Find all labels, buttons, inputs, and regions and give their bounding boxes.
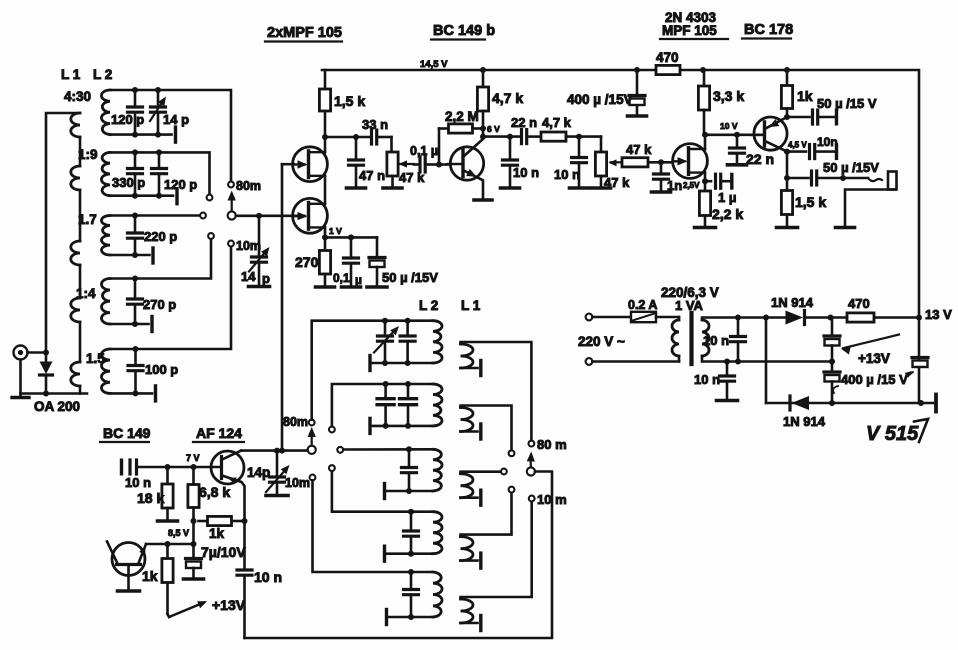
label L2 — [93, 67, 112, 82]
label 220/6,3V — [661, 285, 719, 313]
svg-text:14: 14 — [241, 269, 256, 284]
svg-text:6,8 k: 6,8 k — [199, 484, 230, 500]
svg-text:10n: 10n — [817, 135, 838, 149]
connector 220V top — [586, 314, 631, 321]
wire T1 out node — [483, 134, 521, 140]
svg-text:1,5 k: 1,5 k — [334, 93, 365, 109]
svg-text:L 1: L 1 — [461, 298, 481, 313]
svg-text:1:4: 1:4 — [76, 286, 96, 301]
connector 220V bottom — [586, 358, 679, 365]
svg-text:10 n: 10 n — [554, 167, 580, 182]
svg-text:MPF 105: MPF 105 — [662, 23, 717, 38]
inductor L1j (row5) — [461, 599, 474, 623]
label BC 178 — [742, 22, 793, 39]
wiper arrow 47k (mixer) — [609, 159, 623, 166]
svg-text:L 2: L 2 — [419, 298, 438, 313]
capacitor 47n — [347, 137, 386, 188]
capacitor 10n (osc out) — [237, 521, 282, 638]
capacitor 22n (coupling) — [511, 115, 541, 144]
capacitor elco +13V — [824, 318, 840, 365]
wire L2d bottom — [110, 317, 152, 332]
wire L2b bottom — [110, 189, 177, 204]
svg-text:L 1: L 1 — [61, 67, 81, 82]
inductor L2f (vfo row1) — [433, 321, 442, 363]
wire L2a bottom — [110, 127, 176, 142]
svg-text:6 V: 6 V — [487, 124, 500, 134]
inductor L2c (1.7) — [78, 212, 110, 255]
resistor 1,5k — [319, 70, 365, 111]
svg-text:p: p — [262, 271, 270, 286]
capacitor 1n — [652, 162, 683, 193]
svg-text:330 p: 330 p — [112, 175, 145, 190]
svg-text:2,5V: 2,5V — [683, 181, 700, 190]
wire L1j top to 10m — [461, 501, 532, 599]
switch pole (vfo L2) — [308, 427, 316, 454]
svg-text:7 V: 7 V — [186, 453, 200, 463]
contact L2c — [200, 213, 206, 219]
svg-text:L 2: L 2 — [93, 67, 112, 82]
capacitor 220p (L2c) — [128, 213, 178, 259]
capacitor 120p (L2b) — [152, 149, 198, 198]
resistor 18k — [137, 467, 178, 521]
svg-text:47 k: 47 k — [604, 175, 630, 190]
svg-text:1k: 1k — [142, 568, 158, 584]
antenna connector — [14, 346, 47, 360]
capacitor 33n — [362, 117, 392, 144]
svg-text:270: 270 — [295, 254, 319, 270]
switch pole arrow (input) — [228, 191, 236, 220]
svg-text:2,2 k: 2,2 k — [712, 206, 743, 222]
wire L1i bottom — [461, 553, 481, 568]
wire T3 collector — [222, 451, 241, 460]
wire osc node — [191, 521, 197, 557]
transistor T1 BC149b — [448, 147, 484, 180]
capacitor 10n (a) — [501, 137, 540, 188]
capacitor 10n (osc in) — [122, 460, 197, 490]
svg-text:0.2 A: 0.2 A — [628, 298, 657, 312]
capacitor elco 400u/15V — [824, 362, 908, 407]
svg-text:4,7 k: 4,7 k — [542, 115, 572, 130]
capacitor 14p variable (vfo) — [247, 451, 290, 496]
svg-text:220 V ~: 220 V ~ — [578, 334, 625, 349]
wire L2b top to contact — [110, 152, 210, 194]
contact L1g — [509, 450, 515, 456]
wire Q2 source — [324, 227, 327, 237]
label BC 149 — [100, 425, 151, 442]
phone jack — [843, 172, 897, 190]
arrow +13V (osc) — [168, 597, 246, 617]
capacitor 0,1u — [410, 144, 448, 172]
wire L2c top to contact — [110, 214, 200, 217]
svg-text:10m: 10m — [285, 476, 310, 490]
svg-text:10 n: 10 n — [125, 475, 151, 490]
wire L1g top — [461, 406, 512, 451]
capacitor 10n (b) — [554, 137, 589, 188]
svg-text:1k: 1k — [209, 526, 225, 541]
wire L2g bottom — [370, 418, 433, 433]
svg-text:1 µ: 1 µ — [718, 190, 736, 205]
svg-text:BC 149: BC 149 — [103, 425, 151, 441]
label L1 (vfo) — [461, 298, 481, 313]
svg-text:1k: 1k — [797, 88, 813, 104]
wire L2e top to 10m contact — [110, 246, 231, 349]
svg-text:+13V: +13V — [858, 351, 890, 366]
potentiometer 47k (mixer) — [592, 137, 631, 190]
capacitor 120p (L2a) — [111, 87, 144, 138]
resistor 1,5k (out) — [777, 178, 827, 228]
svg-text:1 V: 1 V — [329, 226, 342, 236]
fuse 0.2A — [628, 298, 679, 322]
transistor Q3 2N4303 — [673, 144, 708, 179]
wire L2g top — [329, 384, 433, 432]
svg-text:10 n: 10 n — [694, 372, 720, 387]
wire pole return — [245, 472, 553, 639]
resistor 1k (osc) — [142, 544, 173, 614]
svg-text:1,5 k: 1,5 k — [795, 194, 826, 210]
capacitor 400u/15V (rail) — [567, 70, 647, 116]
svg-text:120 p: 120 p — [164, 177, 197, 192]
capacitor 10n (psu b) — [694, 359, 738, 401]
svg-text:47 k: 47 k — [626, 142, 652, 157]
svg-text:14,5 V: 14,5 V — [420, 59, 448, 70]
arrow +13V — [841, 335, 899, 367]
diode 1N914 (bottom) — [783, 396, 826, 429]
wire L2a top to 80m contact — [110, 90, 231, 182]
wire T1 collector — [464, 134, 486, 156]
wire ground bus antenna — [21, 360, 88, 394]
inductor L2i (vfo row4) — [433, 512, 442, 554]
contact 10m (input) — [228, 239, 261, 253]
switch pole (vfo L1) — [527, 452, 535, 476]
inductor L2b (1:9) — [78, 147, 110, 196]
transformer primary — [672, 317, 679, 362]
resistor 47k (series) — [622, 142, 672, 167]
capacitor 50u/15V (bypass) — [367, 237, 438, 287]
resistor 1k (fb) — [168, 516, 245, 541]
label AF 124 — [193, 425, 244, 442]
svg-text:OA 200: OA 200 — [34, 399, 80, 414]
svg-text:400 µ /15 V: 400 µ /15 V — [841, 372, 908, 387]
svg-text:8,5 V: 8,5 V — [168, 528, 189, 538]
contact 10m (vfo L1) — [529, 492, 567, 507]
svg-text:470: 470 — [848, 296, 870, 311]
wire L2f bottom — [370, 356, 433, 371]
svg-text:µ: µ — [355, 273, 362, 287]
wire jack return — [836, 190, 896, 228]
inductor L2a (4:30) — [64, 89, 110, 135]
capacitor b (vfo row2) — [400, 381, 417, 429]
resistor 270 — [295, 237, 335, 287]
contact 80m (vfo L2) — [283, 415, 315, 429]
capacitor 10n (psu a) — [703, 315, 746, 365]
contact 80m (vfo L1) — [529, 437, 567, 452]
svg-text:V 515: V 515 — [866, 423, 919, 445]
resistor 4,7k (series) — [541, 115, 601, 141]
svg-text:50 µ /15 V: 50 µ /15 V — [817, 96, 877, 111]
capacitor 50u/15V (emitter) — [787, 96, 877, 124]
resistor 470 (rail) — [656, 50, 680, 75]
inductor L2d (1:4) — [76, 279, 110, 325]
inductor L1f (row1) — [461, 344, 474, 368]
capacitor variable (vfo row1) — [374, 318, 399, 366]
wire T1 emitter — [464, 169, 492, 200]
svg-text:50 µ /15V: 50 µ /15V — [382, 270, 438, 285]
wire L2e bottom — [110, 386, 156, 401]
capacitor 1u — [705, 174, 736, 205]
wire pole to FET gate — [236, 213, 304, 219]
svg-text:14 p: 14 p — [163, 112, 189, 127]
svg-text:10m: 10m — [236, 239, 261, 253]
capacitor (vfo row4) — [404, 509, 419, 557]
wire Q1 drain node — [325, 134, 370, 140]
svg-text:10 n: 10 n — [703, 333, 729, 348]
svg-text:10 n: 10 n — [513, 165, 539, 180]
resistor 6,8k — [186, 453, 230, 524]
diode OA200 — [34, 350, 80, 415]
wire L2h bottom — [385, 484, 434, 499]
inductor L1i (row4) — [461, 537, 474, 561]
wire L1j bottom — [461, 616, 481, 631]
capacitor 14p variable (L2a) — [150, 87, 189, 138]
svg-text:1N 914: 1N 914 — [771, 295, 814, 310]
wire Q2 source bus — [322, 226, 377, 240]
wire oscillator injection — [279, 164, 294, 453]
inductor L2e (1.5) — [86, 349, 110, 393]
transformer core — [689, 313, 693, 364]
resistor 2,2k — [695, 181, 744, 227]
wire Q3 drain — [702, 121, 738, 149]
capacitor a (vfo row2) — [377, 381, 394, 429]
inductor L1g (row2) — [461, 408, 474, 432]
wiper arrow 47k — [399, 160, 415, 167]
wire L1i top — [461, 493, 512, 537]
wire L2i bottom — [385, 546, 434, 561]
diode 1N914 (top) — [768, 295, 847, 325]
svg-text:1n: 1n — [667, 178, 682, 193]
contact L2d — [208, 233, 214, 239]
inductor L1 winding — [71, 113, 80, 394]
wire L1f bottom — [461, 361, 481, 376]
transformer secondary — [702, 318, 832, 362]
svg-text:18 k: 18 k — [137, 490, 164, 506]
wire L2c bottom — [110, 248, 153, 263]
svg-text:33 n: 33 n — [362, 117, 388, 132]
svg-text:47 n: 47 n — [359, 168, 385, 183]
label 2xMPF 105 — [265, 25, 342, 42]
capacitor 0,1u (bypass) — [333, 237, 362, 287]
transistor Q1 MPF105 (upper) — [293, 147, 328, 182]
wire L2d top to contact — [110, 239, 211, 279]
wire T3 emitter — [222, 476, 248, 525]
transistor T3 AF124 — [194, 451, 245, 484]
capacitor 22n (IF) — [728, 132, 775, 167]
capacitor (vfo row5) — [404, 569, 419, 620]
svg-text:3,3 k: 3,3 k — [713, 88, 744, 104]
transistor T2 BC178 — [752, 117, 788, 150]
svg-text:80 m: 80 m — [537, 437, 567, 452]
svg-text:+13V: +13V — [212, 597, 246, 613]
svg-text:270 p: 270 p — [143, 297, 176, 312]
wire pole to T3 — [241, 448, 308, 454]
svg-text:0,1: 0,1 — [333, 271, 350, 285]
svg-text:50 µ /15V: 50 µ /15V — [823, 160, 879, 175]
contact L1i — [509, 487, 515, 493]
capacitor 50u/15V (out) — [787, 160, 879, 185]
wire L2j bottom — [387, 610, 434, 625]
contact 10m (vfo L2) — [285, 475, 315, 490]
node rail junctions — [480, 67, 790, 73]
inductor L2h (vfo row3) — [433, 449, 442, 491]
wire Q1 drain rail — [322, 111, 328, 152]
svg-text:1N 914: 1N 914 — [783, 414, 826, 429]
svg-text:BC 149 b: BC 149 b — [433, 23, 495, 39]
capacitor elco (13V) — [905, 358, 928, 378]
svg-text:2xMPF 105: 2xMPF 105 — [267, 25, 342, 41]
wire L2i top — [329, 465, 433, 512]
svg-text:470: 470 — [656, 50, 679, 65]
capacitor 14p variable (RF) — [241, 216, 270, 287]
resistor 3,3k — [698, 70, 744, 135]
wire cascode link — [324, 176, 327, 204]
svg-text:14p: 14p — [247, 465, 270, 480]
wire L2j top — [313, 480, 434, 572]
svg-text:400 µ /15V: 400 µ /15V — [567, 92, 633, 107]
wire antenna feed — [46, 113, 80, 353]
wire T2 collector — [766, 142, 790, 182]
potentiometer 47k (RF gain) — [383, 137, 425, 188]
svg-text:BC 178: BC 178 — [744, 22, 793, 38]
capacitor (vfo row3) — [402, 446, 417, 494]
ground antenna — [12, 394, 29, 398]
svg-text:22 n: 22 n — [511, 115, 537, 130]
contact 80m (input) — [228, 179, 261, 193]
svg-text:1 VA: 1 VA — [675, 298, 704, 313]
svg-text:100 p: 100 p — [145, 362, 178, 377]
resistor 4,7k (T1) — [477, 70, 523, 137]
inductor L2g (vfo row2) — [433, 384, 442, 426]
svg-text:80m: 80m — [236, 179, 261, 193]
svg-text:4,5 V: 4,5 V — [788, 141, 807, 150]
svg-text:10 V: 10 V — [720, 121, 738, 131]
wire supply rail 14,5V — [322, 59, 919, 318]
transistor T4 BC149 (osc) — [107, 542, 145, 592]
svg-text:4,7 k: 4,7 k — [492, 90, 523, 106]
svg-text:2,2 M: 2,2 M — [445, 109, 479, 124]
capacitor 100p (L2e) — [128, 346, 178, 396]
resistor 1k — [781, 70, 812, 117]
wire L2f top — [312, 321, 433, 420]
label L2 (vfo) — [419, 298, 438, 313]
signature V515 — [866, 419, 928, 445]
wire T4 emitter — [138, 544, 146, 565]
capacitor (vfo row1) — [400, 318, 415, 366]
svg-text:4:30: 4:30 — [64, 89, 91, 104]
svg-text:80m: 80m — [283, 415, 308, 429]
inductor L2j (vfo row5) — [433, 572, 442, 617]
resistor 2,2M — [439, 109, 486, 165]
contact L2b — [207, 195, 213, 201]
inductor L1h (row3) — [461, 474, 474, 498]
label BC 149 b — [431, 23, 495, 40]
wire L2h top — [337, 447, 433, 453]
contact L1h — [501, 469, 507, 475]
wire T2 emitter — [766, 114, 790, 128]
capacitor 7u/10V — [184, 544, 247, 579]
wire L1g bottom — [461, 424, 481, 439]
svg-text:10 n: 10 n — [254, 569, 282, 585]
wire psu right — [918, 318, 921, 404]
svg-text:1.7: 1.7 — [78, 212, 97, 227]
svg-text:13 V: 13 V — [925, 307, 952, 322]
svg-text:1:9: 1:9 — [78, 147, 98, 162]
label L1 — [61, 67, 81, 82]
svg-text:AF 124: AF 124 — [196, 425, 242, 441]
capacitor 330p (L2b) — [112, 149, 145, 198]
svg-text:0,1 µ: 0,1 µ — [410, 144, 438, 158]
svg-text:7µ/10V: 7µ/10V — [201, 544, 246, 560]
label 220V — [578, 334, 625, 349]
capacitor 270p (L2d) — [128, 276, 177, 328]
wire osc emitter bus — [146, 541, 194, 547]
wire L1h top — [461, 472, 502, 474]
wire L1h bottom — [461, 490, 481, 505]
svg-text:22 n: 22 n — [746, 151, 774, 167]
svg-text:220 p: 220 p — [144, 229, 177, 244]
svg-text:1.5: 1.5 — [86, 351, 105, 366]
wire psu bottom — [766, 395, 936, 412]
label 2N 4303 / MPF 105 — [660, 10, 728, 39]
wire L1f top to 80m — [461, 342, 532, 441]
capacitor 10n (out) — [787, 135, 838, 159]
wire Q3 drain to T2 base — [705, 134, 765, 137]
resistor 470 (psu) — [847, 296, 952, 322]
svg-text:120 p: 120 p — [111, 112, 144, 127]
wire psu link — [763, 315, 769, 404]
transistor Q2 MPF105 (lower) — [293, 198, 328, 233]
wire Q3 source — [683, 173, 708, 190]
